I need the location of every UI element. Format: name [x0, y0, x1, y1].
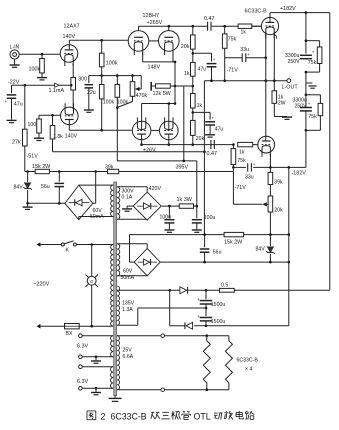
- terminal 25V top: [161, 334, 165, 338]
- capacitor 3300u 250V upper: [300, 54, 312, 56]
- svg-text:~220V: ~220V: [33, 282, 50, 288]
- wire 12k5W line: [170, 85, 193, 87]
- svg-text:2W: 2W: [278, 101, 286, 107]
- branch 47u lower: [193, 111, 210, 113]
- bridge rectifier B2 420V: [133, 192, 161, 220]
- wire mid rail: [305, 72, 307, 95]
- node bank 2: [116, 74, 119, 77]
- svg-text:15k 2W: 15k 2W: [32, 164, 51, 170]
- node lamp top: [90, 243, 93, 246]
- svg-text:140V: 140V: [63, 34, 76, 40]
- node lamp bottom: [90, 325, 93, 328]
- winding 135V right: [117, 286, 119, 325]
- cathode leg V1 left: [265, 31, 267, 136]
- svg-text:6C33C-B: 6C33C-B: [245, 9, 268, 15]
- svg-text:6.6A: 6.6A: [123, 354, 134, 360]
- svg-text:1.3A: 1.3A: [122, 307, 133, 313]
- wire B3 ac top: [117, 243, 147, 245]
- heater load resistor 1: [203, 336, 210, 390]
- terminal 6.3V a2: [79, 355, 83, 359]
- svg-text:148V: 148V: [148, 65, 161, 71]
- wire bias rail 84V: [25, 171, 35, 173]
- grid wire V1: [252, 25, 262, 27]
- wire 300V to B2 bottom: [117, 218, 147, 220]
- svg-text:100u: 100u: [204, 215, 216, 221]
- mains arrow bottom: [37, 324, 41, 329]
- wire 6.3V b bottom: [82, 387, 113, 389]
- resistor 1.8k feedback leg: [52, 115, 54, 125]
- resistor 100k divider c: [115, 85, 120, 98]
- wire 47u to ground: [11, 98, 13, 119]
- wire 20k lower bottom: [192, 135, 194, 144]
- svg-text:0.1A: 0.1A: [122, 195, 133, 201]
- svg-text:420V: 420V: [149, 186, 162, 192]
- svg-text:75k: 75k: [308, 114, 317, 120]
- tube V1 6C33C-B upper: [261, 17, 278, 34]
- cathode leg V1 right heater: [273, 31, 275, 90]
- node grid/1.8k: [51, 114, 54, 117]
- wire 1.8k feedback line: [53, 151, 205, 153]
- branch 47u upper: [193, 52, 212, 54]
- ground under L-IN: [14, 59, 16, 64]
- wire B2 output 420V: [161, 205, 179, 207]
- node doubler branch: [168, 289, 171, 292]
- node cathode/divider: [192, 143, 195, 146]
- svg-text:× 4: × 4: [245, 367, 252, 373]
- bus -182V vertical: [288, 167, 290, 325]
- wire 12AX7b plate to driver grids: [69, 129, 132, 131]
- wire filter cap 1 top: [305, 13, 307, 54]
- wire +182V return: [234, 289, 329, 291]
- wire bias dc line: [160, 261, 289, 263]
- ground 47u lower: [205, 134, 215, 136]
- svg-text:470k: 470k: [136, 93, 148, 99]
- anode lead U2a: [138, 26, 140, 30]
- cathode lead U3a: [141, 134, 143, 145]
- bridge rectifier B3: [134, 248, 160, 275]
- svg-text:+26V: +26V: [143, 147, 156, 153]
- fuse BX: [65, 324, 80, 329]
- wire 1k2W to ground: [273, 103, 275, 116]
- grid link lower pair: [151, 129, 159, 131]
- wire 470k top: [132, 76, 134, 82]
- svg-text:84V: 84V: [256, 247, 266, 253]
- svg-text:33u: 33u: [245, 174, 254, 180]
- svg-text:25V: 25V: [123, 348, 133, 354]
- svg-text:+: +: [312, 50, 315, 55]
- resistor 75k bleeder 2: [318, 103, 323, 115]
- svg-text:6C33C-B: 6C33C-B: [111, 412, 147, 422]
- diode inside B3: [138, 261, 157, 263]
- wire input to grid: [19, 53, 60, 55]
- capacitor 56u left: [58, 172, 60, 182]
- wire 25V bottom: [117, 389, 229, 391]
- grid wire V2: [253, 144, 258, 146]
- svg-text:1k: 1k: [241, 30, 247, 36]
- resistor 20k lower divider: [191, 120, 196, 135]
- terminal 6.3V b2: [79, 387, 83, 391]
- wire 25V top: [117, 335, 229, 337]
- capacitor 0.47 lower coupling: [210, 140, 212, 149]
- resistor 1k grid stopper lower: [238, 142, 253, 146]
- svg-text:-71V: -71V: [235, 185, 247, 191]
- anode lead U3b: [168, 104, 170, 130]
- switch K: [61, 243, 64, 246]
- current arrow 1.1mA: [55, 83, 60, 87]
- wire B3 ac bottom: [117, 275, 147, 277]
- svg-text:27k: 27k: [12, 140, 21, 146]
- potentiometer 470k: [130, 82, 135, 97]
- svg-text:56u: 56u: [213, 249, 222, 255]
- node rail/filter: [305, 11, 308, 14]
- node zener1 tap: [26, 170, 29, 173]
- svg-text:+: +: [197, 297, 200, 302]
- wire 33u upper line: [225, 57, 243, 59]
- svg-text:1k: 1k: [184, 71, 190, 77]
- node rail/75k upper: [223, 25, 226, 28]
- tube V2 6C33C-B lower: [258, 136, 275, 153]
- svg-text:1.1mA: 1.1mA: [49, 88, 65, 94]
- wire cap2 leads: [305, 95, 307, 108]
- node lower divider mid: [192, 111, 195, 114]
- wire 47u lower to ground: [209, 125, 211, 134]
- svg-text:BX: BX: [66, 331, 73, 337]
- node 33u/cathode upper: [265, 56, 268, 59]
- diode D2 doubler: [186, 322, 193, 329]
- resistor 1k grid stopper upper: [238, 24, 252, 28]
- cathode lead U2b: [172, 53, 174, 62]
- winding 300V right top: [117, 187, 120, 220]
- wire B1 ac bottom: [78, 217, 80, 220]
- svg-text:250V: 250V: [288, 59, 301, 65]
- capacitor 56u bias: [204, 235, 206, 248]
- wire 6.3V a bottom: [82, 356, 113, 358]
- svg-text:12BH7: 12BH7: [143, 13, 159, 19]
- winding 6.3V second: [110, 367, 113, 389]
- svg-text:1.8k: 1.8k: [53, 134, 63, 140]
- svg-text:+: +: [308, 101, 311, 106]
- svg-text:250V: 250V: [295, 104, 308, 110]
- node plate/100k-2: [100, 129, 103, 132]
- tube U2a 12BH7 upper: [128, 31, 149, 52]
- wire output node: [204, 80, 287, 82]
- capacitor 22u: [88, 76, 90, 83]
- wire pot bottom: [269, 212, 271, 235]
- node input/100k junction: [41, 53, 44, 56]
- diode inside B2: [137, 205, 158, 207]
- resistor 300 cathode: [71, 78, 76, 91]
- tube U1b 12AX7 second triode inverted: [61, 107, 79, 125]
- wire fuse to primary: [79, 325, 113, 327]
- winding 60V right mid: [117, 244, 120, 276]
- resistor 75k lower grid leak: [232, 145, 234, 149]
- svg-text:1500u: 1500u: [211, 319, 226, 325]
- wire 39k to pot: [269, 185, 271, 197]
- svg-text:-22V: -22V: [8, 80, 20, 86]
- svg-text:33u: 33u: [240, 47, 249, 53]
- ground under input 100k: [37, 77, 47, 79]
- capacitor 1500u lower: [205, 308, 207, 316]
- node 100u c1: [168, 205, 171, 208]
- ground under 47u: [7, 119, 17, 121]
- bus 395V drop: [196, 161, 198, 206]
- node branch 75k r2: [305, 94, 308, 97]
- bus divider line: [89, 75, 141, 77]
- svg-text:+: +: [197, 314, 200, 319]
- node bias/-182V: [288, 233, 291, 236]
- resistor 100 grid stopper: [38, 115, 40, 119]
- ground output bleeder: [282, 116, 292, 118]
- resistor 1k 2W output bleeder: [272, 91, 277, 104]
- wiper arrow 20k: [262, 202, 267, 206]
- node doubler midpoint: [205, 307, 208, 310]
- resistor 20k upper divider: [192, 26, 194, 35]
- svg-text:1k: 1k: [239, 150, 245, 156]
- svg-text:395V: 395V: [176, 164, 189, 170]
- node below cap1: [305, 71, 308, 74]
- svg-text:135V: 135V: [122, 300, 135, 306]
- wire cathode chain to lower triode: [72, 90, 74, 107]
- cathode lead 12AX7b up: [72, 107, 74, 109]
- transformer core: [114, 182, 117, 396]
- input connector L-IN: [10, 50, 19, 59]
- node heater res1 top: [206, 334, 209, 337]
- svg-text:0.47: 0.47: [207, 151, 218, 157]
- ground 6.3V a: [95, 356, 98, 359]
- resistor 100k plate load a: [101, 40, 103, 53]
- wire -71V to wiper: [232, 167, 234, 204]
- resistor 15k 2W bias: [224, 232, 244, 236]
- wire bias supply line: [130, 234, 225, 236]
- node bank 1: [100, 74, 103, 77]
- capacitor 100u c2: [196, 206, 198, 218]
- svg-text:100k: 100k: [103, 100, 115, 106]
- cathode lead U3b: [168, 134, 170, 145]
- winding 25V right bottom: [117, 336, 119, 390]
- wire 75k r1 bottom: [319, 64, 321, 73]
- tube U3a 12BH7 lower: [132, 121, 151, 140]
- anode lead V1: [269, 13, 271, 23]
- node below cap2: [305, 129, 308, 132]
- cathode lead 12AX7a: [72, 64, 74, 78]
- svg-text:K: K: [66, 248, 70, 254]
- ground zener node: [27, 203, 29, 206]
- node heater res1 bottom: [206, 388, 209, 391]
- resistor 12k 5W: [151, 85, 155, 87]
- grid wire 12AX7b: [39, 114, 61, 116]
- wire 1k3W out: [194, 205, 197, 207]
- node plate/100k load: [100, 39, 103, 42]
- bus SRPP mid: [174, 62, 176, 104]
- terminal 25V bottom: [161, 388, 165, 392]
- svg-text:1500u: 1500u: [211, 302, 226, 308]
- resistor 1k lower divider: [191, 94, 196, 109]
- resistor 27k bus: [23, 129, 28, 146]
- wire B3 left riser: [129, 235, 131, 263]
- wire zener line to bridge: [28, 202, 65, 204]
- node -182V bus drop: [288, 166, 291, 169]
- svg-text:12AX7: 12AX7: [64, 24, 80, 30]
- resistor 1k upper divider: [191, 62, 196, 76]
- wire 470k bottom join: [132, 96, 134, 101]
- svg-text:100k: 100k: [117, 100, 129, 106]
- wire 6.3V b top: [82, 366, 113, 368]
- winding 60V left top: [111, 185, 114, 216]
- wire cathode line +26V: [142, 144, 210, 146]
- svg-text:75k: 75k: [237, 158, 246, 164]
- resistor 1k 3W: [179, 204, 193, 208]
- plate lead 12AX7a: [68, 40, 70, 49]
- potentiometer 20k bias: [268, 196, 273, 212]
- svg-text:100: 100: [28, 122, 37, 128]
- svg-text:300: 300: [78, 77, 87, 83]
- zener 84V left: [27, 172, 29, 183]
- node cathode current: [70, 84, 73, 87]
- svg-text:1k 3W: 1k 3W: [177, 197, 193, 203]
- mains arrow top: [37, 242, 41, 247]
- capacitor 33u lower: [247, 163, 249, 171]
- ground B2 left vertex: [127, 205, 133, 207]
- cathode lead U2a: [142, 53, 144, 62]
- anode lead U3a: [141, 104, 143, 130]
- svg-text:84V: 84V: [14, 185, 24, 191]
- node pot/zener2: [269, 233, 272, 236]
- node rail/divider: [192, 25, 195, 28]
- wire lower grid line: [209, 144, 233, 146]
- node bridge1 tap: [94, 170, 97, 173]
- node cathode/-182V: [269, 166, 272, 169]
- svg-text:20k: 20k: [181, 44, 190, 50]
- svg-text:2: 2: [101, 412, 106, 422]
- svg-text:47u: 47u: [14, 102, 23, 108]
- bus +182V right: [329, 13, 331, 291]
- rail -182V: [233, 166, 246, 168]
- tube U2b 12BH7 upper: [159, 31, 180, 52]
- svg-text:100k: 100k: [106, 61, 118, 67]
- svg-text:6.3V: 6.3V: [77, 379, 88, 385]
- wire lower anodes: [142, 103, 175, 105]
- rail 265V: [139, 25, 208, 27]
- wire 135V top lead: [117, 289, 179, 291]
- capacitor 33u upper: [241, 53, 243, 62]
- caption 图2 6C33C-B OTL schematic title: [87, 410, 96, 412]
- svg-text:100u: 100u: [160, 215, 172, 221]
- terminal L-OUT: [287, 79, 291, 83]
- node 47u tap: [210, 79, 213, 82]
- diode inside B1: [69, 202, 90, 204]
- tube U3b 12BH7 lower: [160, 121, 179, 140]
- branch to 75k r2: [306, 94, 321, 96]
- cathode lead V2: [269, 153, 271, 167]
- wire 75k low bottom: [232, 165, 234, 168]
- wire lower divider top: [192, 86, 194, 94]
- svg-text:G: G: [90, 279, 94, 284]
- wire 75k up bottom: [224, 48, 226, 80]
- svg-text:+182V: +182V: [280, 6, 296, 12]
- wire lamp leads: [91, 245, 93, 277]
- svg-text:+: +: [211, 115, 214, 120]
- svg-text:+265V: +265V: [147, 20, 163, 26]
- tube U1a 12AX7 first triode: [60, 45, 78, 63]
- bridge rectifier B1: [65, 185, 93, 220]
- diode D1 doubler: [180, 287, 187, 294]
- capacitor 47u rail filter: [7, 94, 17, 96]
- wire bridge1 dc riser: [95, 172, 97, 204]
- svg-text:+: +: [213, 57, 216, 62]
- heater load resistor 2: [225, 336, 232, 390]
- wire 1k bottom to 12k line: [192, 76, 194, 86]
- wire -182V riser: [305, 130, 307, 167]
- svg-text:L-IN: L-IN: [10, 45, 20, 51]
- bus -22V vertical: [24, 85, 26, 129]
- rail +182V: [270, 12, 330, 14]
- ground under 100: [38, 133, 40, 138]
- resistor 39k bias rail: [108, 169, 119, 173]
- node output line left: [265, 79, 268, 82]
- svg-text:47u: 47u: [215, 127, 224, 133]
- capacitor 0.47 top coupling: [207, 22, 209, 31]
- winding 6.3V first: [111, 336, 114, 357]
- ground under 22u: [88, 88, 90, 109]
- ground 6.3V b: [95, 387, 98, 390]
- zener 84V right: [269, 235, 271, 246]
- wire B1 ac top: [79, 184, 113, 186]
- node -22V bus top: [24, 84, 27, 87]
- ground transformer core: [114, 396, 116, 398]
- svg-text:100k: 100k: [29, 67, 41, 73]
- plate lead 12AX7b down: [68, 120, 70, 131]
- node cap1500 top: [205, 289, 208, 292]
- anode lead U2b: [168, 26, 170, 30]
- svg-text:0.47: 0.47: [204, 16, 215, 22]
- svg-text:140V: 140V: [65, 133, 78, 139]
- wire doubler bypass: [169, 290, 171, 326]
- node cap1500 bottom: [205, 325, 208, 328]
- node divider mid upper: [192, 49, 194, 62]
- svg-text:75k: 75k: [228, 37, 237, 43]
- svg-text:OTL: OTL: [194, 412, 211, 422]
- svg-text:-71V: -71V: [227, 68, 239, 74]
- svg-text:-182V: -182V: [292, 171, 307, 177]
- svg-text:60V: 60V: [123, 269, 133, 275]
- winding primary left: [111, 245, 114, 327]
- capacitor 1500u upper: [205, 290, 207, 299]
- svg-text:39k: 39k: [274, 180, 283, 186]
- svg-text:6C33C-B: 6C33C-B: [237, 358, 259, 364]
- chassis ground mid supply: [306, 82, 313, 84]
- svg-text:-51V: -51V: [27, 154, 39, 160]
- terminal 6.3V b1: [79, 365, 83, 369]
- resistor 75k bleeder 1: [317, 47, 322, 64]
- resistor 100k input grid leak: [41, 54, 43, 58]
- node 56u2 top: [203, 233, 206, 236]
- wire D2 to -182V: [194, 325, 289, 327]
- capacitor 100u c1: [168, 206, 170, 218]
- wire D1 to caps: [189, 289, 220, 291]
- svg-text:0.5: 0.5: [221, 283, 228, 289]
- node heater/output: [273, 79, 276, 82]
- svg-text:L-OUT: L-OUT: [282, 85, 299, 91]
- plate lead V2: [265, 136, 267, 141]
- wiper arrow 470k: [140, 76, 142, 89]
- wire bank c down to 395V line: [116, 76, 118, 85]
- resistor 39k bias lower: [269, 167, 271, 172]
- wire 1.8k to feedback line: [52, 139, 54, 152]
- wire 395V line: [117, 160, 197, 162]
- wire 1.1mA feed: [25, 84, 71, 86]
- grid link between upper 12BH7: [149, 40, 159, 42]
- svg-text:1k: 1k: [197, 103, 203, 109]
